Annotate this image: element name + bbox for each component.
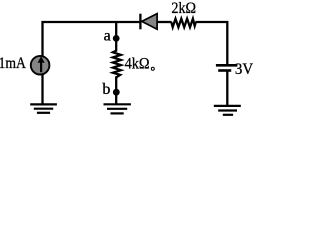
- wire: 2k resistor to top-right corner down to battery: [196, 22, 228, 64]
- svg-text:2kΩ: 2kΩ: [171, 0, 196, 17]
- wire: top-left L from current source up and across to diode cathode: [43, 22, 140, 56]
- wire: middle branch lower segment (resistor to ground): [115, 76, 117, 104]
- svg-text:4kΩ: 4kΩ: [125, 55, 150, 72]
- current source arrow: [40, 62, 42, 73]
- current source I1 circle: [31, 56, 50, 75]
- battery V1 bottom plate: [218, 69, 231, 72]
- wire: middle branch upper segment (top wire to resistor): [115, 22, 117, 52]
- node b dot: [113, 89, 120, 96]
- resistor R2 4k zigzag: [113, 51, 121, 78]
- diode D1 triangle: [142, 14, 157, 30]
- diode D1 cathode bar: [139, 14, 141, 30]
- svg-text:a: a: [104, 28, 111, 45]
- battery V1 top plate: [216, 64, 238, 67]
- svg-text:1mA: 1mA: [0, 55, 26, 72]
- node a dot: [113, 35, 120, 42]
- ground right: [214, 106, 241, 115]
- ground middle: [104, 104, 131, 113]
- subscript ring after 4kOhm: [151, 67, 154, 70]
- wire: diode anode to 2k resistor: [158, 21, 172, 23]
- ground left: [30, 104, 57, 112]
- wire: current source bottom to left ground: [41, 75, 43, 105]
- resistor R1 2k zigzag: [171, 19, 196, 28]
- svg-text:b: b: [102, 81, 110, 98]
- wire: battery bottom to right ground: [226, 72, 228, 106]
- svg-text:3V: 3V: [235, 61, 253, 78]
